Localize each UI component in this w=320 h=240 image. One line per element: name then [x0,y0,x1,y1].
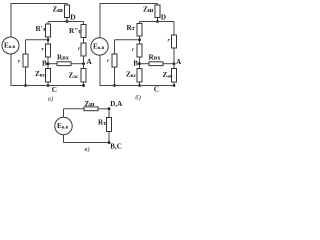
wire Zbc bottom [47,82,49,86]
wire r to A node (b) [173,48,175,69]
wire Rt top stub (b) [139,22,141,24]
node B,C (v) [108,141,111,144]
resistor r A-branch (b) [172,35,177,48]
wire Rt bottom (v) [108,132,110,143]
wire top rail (b) [100,3,158,5]
wire Zsh to corner (v) [98,108,109,110]
wire horizontal to left sub-branch [26,39,49,41]
svg-text:Zш: Zш [85,100,96,108]
wire D rail (b) [140,21,175,23]
resistor Zsh (a) [65,5,70,18]
wire left rail bottom [10,54,12,86]
wire r left bottom (b) [114,67,116,86]
svg-text:Rт: Rт [127,24,135,32]
svg-text:R"т: R"т [69,27,81,35]
resistor r left (a) [23,54,28,67]
resistor Zbc (b) [137,69,142,83]
node A (b) [173,62,176,65]
node A (a) [82,62,85,65]
resistor r A-branch (a) [81,43,86,56]
wire r bottom to B [47,57,49,69]
wire R't bottom [47,37,49,44]
resistor r B-branch (a) [46,44,51,57]
resistor Zac (a) [81,69,86,83]
wire Zsh bottom to D (b) [157,18,159,22]
resistor Rt (v) [107,118,112,132]
wire left sub-branch down [25,40,27,54]
resistor Zac (b) [172,69,177,83]
svg-text:Rвх: Rвх [149,53,162,61]
node junction under Rt (b) [138,38,141,41]
svg-text:С: С [52,86,57,94]
wire Zsh top stub [66,4,68,6]
wire top rail a [11,3,68,5]
svg-text:С: С [154,85,159,93]
wire left rail bottom (b) [99,55,101,85]
source E o.v (b) [91,38,108,55]
svg-text:D: D [161,13,166,22]
resistor Zbc (a) [46,69,51,83]
node B (b) [138,62,141,65]
resistor r left (b) [112,54,117,67]
wire r left bottom to bottom rail [25,67,27,86]
wire horizontal to left sub-branch (b) [115,39,140,41]
node C (a) [47,84,50,87]
svg-text:B: B [133,59,138,67]
node r-left bottom [24,84,27,87]
wire source top stub (v) [63,109,65,118]
node Zac bottom (b) [173,84,176,87]
resistor R''t (a) [81,25,86,38]
svg-text:A: A [87,58,93,66]
svg-text:D,A: D,A [110,100,122,108]
wire left rail top (b) [99,4,101,39]
node junction under R't [47,38,50,41]
wire bottom rail (v) [64,142,110,144]
resistor r B-branch (b) [137,44,142,57]
wire left sub-branch down (b) [114,40,116,54]
wire R''t bottom [83,38,85,44]
wire r to A node [83,56,85,69]
svg-text:Zш: Zш [143,6,154,14]
resistor Zsh (b) [155,5,160,18]
svg-text:Rвх: Rвх [57,53,70,61]
svg-text:D: D [70,13,75,22]
wire D rail (a) [48,21,84,23]
resistor Rvx (b) [149,62,163,66]
wire Zbc bottom (b) [139,82,141,86]
wire Zsh bottom to D [66,18,68,22]
svg-text:б): б) [135,95,140,102]
resistor Rvx (a) [57,62,71,66]
svg-text:Rт: Rт [98,119,106,127]
wire bottom rail (b) [100,85,175,87]
svg-text:а): а) [48,95,53,102]
wire D rail right corner down (b) [173,22,175,36]
wire Rvx to A [71,63,84,65]
wire Zac bottom [83,82,85,86]
wire top rail left (v) [64,108,85,110]
wire source bottom stub (v) [63,135,65,143]
resistor Zsh (v) [84,107,98,111]
wire r bottom to B (b) [139,57,141,69]
wire D rail left corner down [47,22,49,25]
wire B to Rvx [48,63,57,65]
wire left rail top (source top to top rail) [10,4,12,38]
svg-text:в): в) [85,146,90,152]
wire B to Rvx (b) [140,63,150,65]
wire bottom rail (a) [11,85,84,87]
node Zbc bottom (b) [138,84,141,87]
svg-text:Zш: Zш [53,6,64,14]
resistor Rt (b) [137,24,142,37]
node D (a) [66,20,69,23]
svg-text:R'т: R'т [36,25,46,33]
svg-text:A: A [176,58,182,66]
wire Rvx to A (b) [163,63,174,65]
node r-left bottom (b) [113,84,116,87]
node D,A (v) [108,107,111,110]
node D (b) [156,20,159,23]
wire Zsh top stub (b) [157,4,159,6]
wire Zac bottom (b) [173,82,175,86]
wire corner down to Rt (v) [108,109,110,118]
source E o.v (a) [2,37,19,54]
node Zac bottom [82,84,85,87]
wire Rt bottom (b) [139,36,141,44]
resistor R't (a) [46,24,51,37]
node B (a) [47,62,50,65]
source E o.v (v) [55,117,72,134]
svg-text:B,C: B,C [110,142,121,150]
svg-text:B: B [42,59,47,67]
wire D rail right corner down [83,22,85,25]
